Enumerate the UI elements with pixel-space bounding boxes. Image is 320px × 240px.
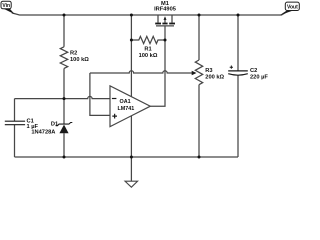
wire wiper horizontal with hops to R3 arrow [90, 71, 192, 73]
svg-text:R3: R3 [205, 68, 212, 74]
Vin tag [1, 1, 15, 14]
wire C2 top lead [237, 15, 239, 71]
wire R2 top lead [63, 15, 65, 47]
op-amp plus input sign [112, 114, 117, 119]
wire C2 bottom lead [237, 75, 239, 157]
M1 drain lead [157, 15, 159, 23]
M1 gate plate [156, 25, 174, 27]
wire R3 wiper to op-amp non-inverting input [90, 73, 110, 115]
svg-text:D1: D1 [51, 121, 58, 127]
ground [125, 181, 138, 187]
D1 anode triangle [59, 125, 68, 134]
svg-text:LM741: LM741 [118, 106, 135, 112]
M1 channel bars [155, 23, 161, 25]
op-amp OA1 LM741 [110, 86, 150, 127]
potentiometer R3 wiper arrow [192, 71, 197, 75]
potentiometer R3 zigzag [195, 60, 202, 85]
node D1 anode on bottom rail [63, 156, 66, 159]
node R2 top on Vin rail [63, 14, 66, 17]
svg-text:OA1: OA1 [120, 99, 131, 105]
wire C1 bottom to bottom rail [14, 125, 16, 157]
capacitor C1 [5, 119, 39, 130]
op-amp minus input sign [112, 98, 117, 100]
node R1 left lower [130, 39, 133, 42]
wire R3 top lead [198, 15, 200, 60]
wire Vin rail to R1 left and op-amp V+ pin [130, 15, 132, 97]
wire bottom rail [15, 156, 239, 158]
resistor R1 zigzag [131, 36, 165, 43]
node R3 bottom on bottom rail [198, 156, 201, 159]
svg-text:1 µF: 1 µF [27, 124, 39, 130]
resistor R2 zigzag [60, 47, 67, 69]
wire reference node to op-amp inverting input (hop over feedback wire) [15, 96, 111, 98]
svg-text:220 µF: 220 µF [250, 74, 268, 80]
svg-text:Vout: Vout [287, 5, 298, 11]
M1 source lead [171, 15, 173, 23]
Vout tag [280, 2, 300, 15]
wire R2 bottom to zener D1 [63, 68, 65, 124]
svg-text:R1: R1 [144, 46, 151, 52]
wire D1 anode to bottom rail [63, 133, 65, 157]
D1 cathode bar with zener ticks [56, 123, 73, 126]
wire top rail Vin to Vout [12, 11, 288, 15]
svg-text:200 kΩ: 200 kΩ [205, 74, 224, 80]
svg-text:1N4728A: 1N4728A [31, 129, 55, 135]
svg-text:100 kΩ: 100 kΩ [139, 53, 158, 59]
node reference D1 R2 [63, 97, 66, 100]
svg-text:100 kΩ: 100 kΩ [70, 57, 89, 63]
wire op-amp V- pin to bottom rail [130, 115, 132, 158]
M1 middle lead [164, 20, 166, 23]
svg-text:Vin: Vin [2, 3, 10, 9]
zener diode D1 [31, 121, 72, 135]
svg-text:IRF4905: IRF4905 [154, 6, 176, 12]
node R3 top on Vout rail [198, 14, 201, 17]
wire gate of M1 to R1 right to op-amp output [150, 26, 165, 106]
node C2 top on Vout rail [237, 14, 240, 17]
wire ground lead [130, 157, 132, 181]
wire left rail corner to C1 top [14, 99, 16, 121]
svg-text:C2: C2 [250, 68, 257, 74]
node R1 right / gate / output [164, 39, 167, 42]
capacitor C2 polarized [228, 66, 268, 81]
MOSFET M1 IRF4905 [154, 1, 176, 26]
node ground on bottom rail [130, 156, 133, 159]
svg-text:R2: R2 [70, 51, 77, 57]
M1 body arrow [164, 16, 167, 20]
node R1 left on Vin rail [130, 14, 133, 17]
C2 plus sign [230, 66, 233, 69]
wire R3 bottom lead [198, 85, 200, 157]
